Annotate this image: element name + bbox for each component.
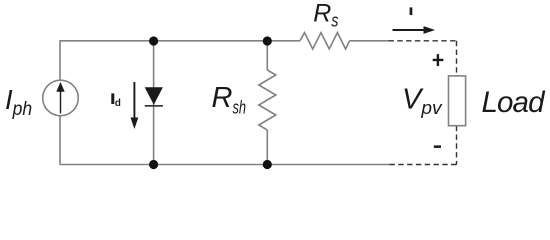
- label Id: [111, 93, 114, 104]
- wire left vertical upper: [59, 41, 61, 81]
- junction dot top diode: [149, 36, 158, 45]
- dashed wire right upper: [456, 41, 458, 76]
- wire Rsh branch lower: [266, 130, 268, 165]
- wire diode branch vertical: [153, 41, 155, 165]
- svg-text:Load: Load: [482, 86, 547, 119]
- svg-text:Iph: Iph: [5, 84, 32, 120]
- dashed wire right lower: [456, 126, 458, 165]
- resistor Rs zigzag: [300, 33, 350, 49]
- wire left vertical lower: [59, 116, 61, 165]
- label I top: [410, 7, 413, 15]
- diode cathode bar: [145, 105, 163, 107]
- Id arrow: [133, 82, 135, 120]
- current source Iph circle: [43, 80, 79, 116]
- label plus: [433, 54, 444, 66]
- svg-text:Rsh: Rsh: [212, 82, 247, 117]
- wire top-left horizontal: [60, 40, 301, 42]
- diode D triangle: [145, 87, 163, 105]
- I arrow: [393, 29, 426, 31]
- wire bottom horizontal: [60, 164, 390, 166]
- svg-text:d: d: [115, 98, 121, 109]
- current source arrow: [60, 92, 62, 114]
- wire top-right horizontal (after Rs): [350, 40, 389, 42]
- label minus: [434, 145, 441, 148]
- dashed wire top: [389, 40, 457, 42]
- svg-text:Vpv: Vpv: [402, 83, 443, 118]
- junction dot top Rsh: [263, 36, 272, 45]
- junction dot bottom diode: [149, 160, 158, 169]
- load box: [449, 76, 466, 126]
- junction dot bottom Rsh: [263, 160, 272, 169]
- svg-text:Rs: Rs: [313, 0, 338, 31]
- dashed wire bottom: [390, 164, 457, 166]
- wire Rsh branch upper: [266, 41, 268, 70]
- resistor Rsh zigzag: [259, 70, 276, 130]
